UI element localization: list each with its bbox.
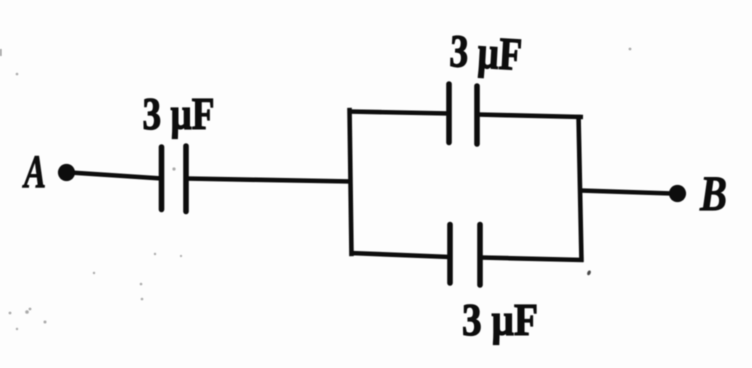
wire: right branch vertical: [579, 115, 582, 262]
node A terminal dot: [58, 164, 75, 181]
wire: bottom branch right segment: [480, 258, 584, 261]
node B terminal dot: [669, 185, 686, 202]
capacitor C2 (top branch, 3 uF): [449, 84, 477, 144]
svg-text:3 µF: 3 µF: [143, 88, 215, 139]
wire right junction to B: [580, 191, 672, 194]
wire: top branch left segment: [348, 112, 451, 114]
wire: bottom branch left segment: [350, 253, 451, 257]
capacitor C3 (bottom branch, 3 uF): [450, 225, 480, 286]
capacitor C1 (series, 3 uF): [162, 146, 187, 212]
wire: left branch vertical: [350, 108, 352, 256]
svg-text:3 µF: 3 µF: [462, 294, 538, 345]
wire A to C1: [70, 173, 162, 179]
wire C1 to left junction: [186, 179, 352, 182]
svg-text:3 µF: 3 µF: [448, 25, 523, 80]
wire: top branch right segment: [477, 115, 583, 118]
svg-text:B: B: [699, 165, 727, 221]
svg-text:A: A: [22, 146, 46, 198]
